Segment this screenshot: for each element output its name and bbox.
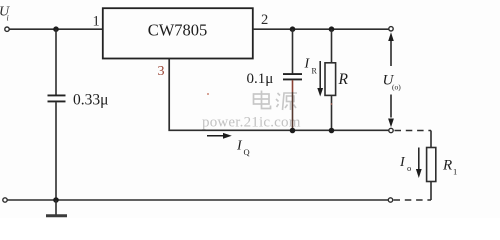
output terminal bottom (388, 198, 392, 202)
svg-text:R: R (442, 158, 452, 174)
svg-text:1: 1 (453, 167, 457, 177)
svg-text:CW7805: CW7805 (148, 21, 208, 40)
node junction input (53, 26, 59, 32)
resistor R (325, 29, 349, 131)
dashed wire to load top (395, 130, 432, 132)
wire input (9, 28, 102, 30)
dashed wire to load bottom (394, 199, 432, 201)
current Io label and arrow (399, 148, 422, 179)
current IR label and arrow (304, 57, 324, 97)
artifact specks (207, 93, 209, 95)
voltage Uo arrow (383, 32, 402, 127)
node junction R bottom (329, 128, 335, 134)
ground (46, 200, 67, 216)
node junction ground (53, 197, 59, 203)
output terminal top (389, 27, 393, 31)
node junction C2 bottom (290, 128, 296, 134)
input terminal (5, 27, 9, 31)
svg-text:0.1μ: 0.1μ (247, 71, 274, 87)
svg-text:0.33μ: 0.33μ (73, 92, 108, 109)
capacitor C2 0.1u (247, 29, 303, 131)
current IQ arrow and label (207, 133, 250, 157)
svg-text:Q: Q (244, 147, 250, 157)
node junction R top (329, 26, 335, 32)
capacitor C1 0.33u (48, 29, 109, 200)
load resistor R1 (427, 131, 458, 201)
bottom left terminal (3, 198, 7, 202)
watermark 源 (276, 93, 297, 110)
svg-text:1: 1 (93, 14, 100, 30)
wire output rail (253, 28, 389, 30)
pin 3 wire (169, 59, 389, 131)
watermark 电 (254, 91, 271, 109)
output terminal mid (389, 128, 393, 132)
svg-text:i: i (7, 14, 9, 23)
bottom rail wire (7, 199, 388, 201)
svg-text:power.21ic.com: power.21ic.com (202, 115, 301, 131)
node junction C2 top (290, 26, 296, 32)
regulator U1 CW7805 (103, 8, 253, 58)
svg-text:3: 3 (158, 64, 165, 79)
svg-text:(o): (o) (392, 83, 401, 92)
svg-text:R: R (338, 71, 349, 88)
svg-text:R: R (312, 67, 318, 76)
svg-text:2: 2 (261, 12, 268, 28)
svg-text:o: o (407, 163, 411, 173)
